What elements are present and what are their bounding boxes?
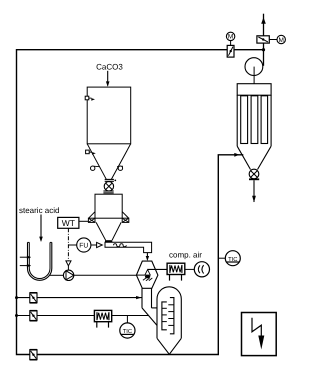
wire filter dust outlet: [252, 180, 256, 202]
chute mixer to vessel: [142, 288, 157, 325]
wire filter inlet arrow: [234, 153, 239, 157]
flange weigh hopper inlet: [103, 191, 113, 193]
heating element left comb: [162, 302, 167, 330]
svg-text:TIC: TIC: [123, 328, 132, 335]
fan: [245, 58, 263, 84]
valve line2: [30, 311, 37, 321]
vibrator right: [117, 166, 123, 170]
wire exhaust arrow: [261, 17, 266, 24]
motor M2: [269, 35, 285, 44]
tank stearic acid jacketed: [28, 242, 52, 280]
valve V1 recirculation damper: [227, 45, 234, 57]
wire stearic line into nozzle: [136, 274, 146, 276]
motor M1: [226, 32, 234, 45]
load cell right: [122, 218, 129, 222]
silo CaCO3: [87, 87, 131, 179]
valve V2 exhaust damper: [257, 36, 269, 43]
bag filter: [237, 84, 271, 170]
weigh hopper: [89, 194, 129, 240]
rotary valve filter discharge: [249, 169, 259, 179]
pump P1: [50, 270, 74, 280]
wire pump to mixer: [74, 274, 146, 276]
wire WT signal dash-dot: [67, 228, 69, 260]
wire CaCO3 feed arrow: [106, 71, 110, 87]
mixer hexagon: [136, 261, 158, 288]
wire heated air line 2: [15, 314, 149, 317]
svg-text:FU: FU: [79, 243, 88, 250]
instrument TIC right: [218, 251, 240, 266]
valve line3: [30, 350, 37, 360]
wire stearic acid feed arrow: [39, 215, 43, 243]
level switch lower: [86, 150, 96, 155]
vessel fluid bed: [157, 287, 181, 354]
valve line1: [30, 293, 37, 303]
power supply box: [242, 313, 277, 356]
node junction top right: [262, 48, 265, 51]
instrument FU: [68, 238, 102, 252]
heating inlet lower: [20, 264, 31, 267]
heating element right comb: [168, 298, 174, 334]
blower comp air: [185, 262, 210, 277]
vibrator left: [91, 166, 100, 170]
spray nozzle: [143, 270, 152, 281]
level switch upper: [85, 96, 95, 101]
wire screw discharge arrow: [146, 253, 149, 261]
instrument TIC left: [120, 316, 135, 339]
wire fluidizing air line 1: [15, 296, 142, 299]
svg-text:M: M: [278, 37, 283, 44]
load cell left: [88, 218, 95, 222]
instrument WT: [58, 217, 89, 228]
svg-text:TIC: TIC: [228, 256, 237, 263]
flange silo outlet: [105, 179, 117, 181]
heater H1 comp air: [167, 263, 185, 280]
heating inlet upper: [20, 256, 31, 259]
svg-text:WT: WT: [62, 218, 75, 228]
wire exhaust line: [263, 14, 265, 66]
wire main duct loop: [17, 50, 264, 355]
rotary valve silo discharge: [104, 182, 113, 191]
heater H2: [94, 310, 111, 327]
svg-text:comp. air: comp. air: [169, 250, 202, 259]
svg-text:M: M: [228, 34, 233, 41]
svg-text:CaCO3: CaCO3: [96, 62, 123, 71]
svg-text:stearic acid: stearic acid: [19, 206, 59, 215]
wire comp air to nozzle: [148, 268, 168, 270]
wire signal arrow open: [66, 261, 71, 266]
screw feeder: [105, 240, 152, 252]
